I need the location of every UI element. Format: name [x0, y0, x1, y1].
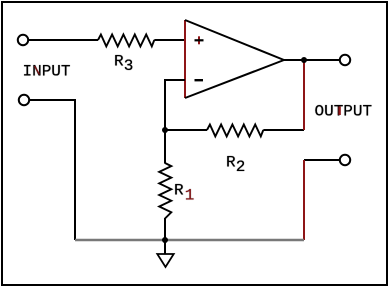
- wire R3 to op-amp + input: [154, 39, 185, 41]
- wire R2 to output branch: [263, 129, 304, 131]
- svg-text:R: R: [174, 182, 184, 200]
- resistor R1: [159, 163, 171, 219]
- svg-text:3: 3: [124, 57, 134, 75]
- red stem artifact on first T of OUTPUT: [338, 107, 340, 116]
- op-amp - input symbol: [195, 79, 204, 81]
- op-amp U1 left edge: [184, 20, 186, 98]
- node A junction dot: [162, 127, 168, 133]
- wire R1 to ground rail: [164, 218, 166, 240]
- terminal J4 (lower right): [340, 155, 350, 165]
- wire op-amp output: [284, 59, 340, 61]
- svg-text:INPUT: INPUT: [23, 63, 71, 81]
- input terminal J1 (top left): [18, 35, 28, 45]
- op-amp U1 triangle: [185, 20, 284, 98]
- svg-text:R: R: [114, 53, 124, 71]
- ground junction dot: [162, 237, 168, 243]
- wire J1 to R3: [29, 39, 99, 41]
- resistor R2: [207, 125, 263, 137]
- wire rail to ground symbol: [164, 240, 166, 254]
- op-amp + input symbol: [195, 36, 204, 44]
- op-amp U1 top edge: [185, 20, 284, 60]
- wire output down to R2 (red): [303, 60, 305, 130]
- ground rail (gray): [75, 239, 304, 241]
- label R2: [226, 154, 245, 177]
- svg-text:2: 2: [236, 158, 246, 176]
- output terminal J3: [340, 55, 350, 65]
- svg-text:OUTPUT: OUTPUT: [315, 103, 373, 121]
- svg-text:R: R: [226, 154, 236, 172]
- output junction dot: [301, 57, 307, 63]
- op-amp U1 bottom edge: [185, 60, 284, 98]
- label R1: [174, 182, 194, 205]
- wire J2 to ground rail: [30, 100, 76, 240]
- wire node A to R1: [164, 130, 166, 164]
- wire J4 to down branch: [304, 159, 340, 161]
- wire node A to R2: [165, 129, 207, 131]
- ground symbol: [157, 254, 173, 267]
- svg-text:1: 1: [185, 187, 195, 205]
- label R3: [114, 53, 133, 76]
- input terminal J2 (lower left): [19, 95, 29, 105]
- red diagonal artifact on N of INPUT: [35, 66, 40, 75]
- wire J4 branch down to rail (red): [303, 160, 305, 240]
- wire - input to feedback node: [165, 80, 185, 130]
- resistor R3: [98, 35, 154, 47]
